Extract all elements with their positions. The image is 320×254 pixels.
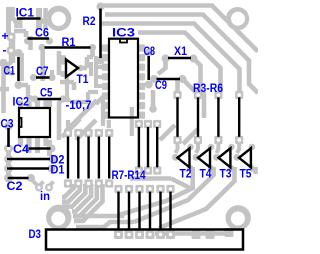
svg-text:C7: C7 (36, 64, 49, 78)
wire T1 surround (60, 49, 93, 68)
wire lead 3 (138, 192, 140, 229)
resistor R8 (77, 137, 79, 179)
pad C9 left (150, 75, 158, 83)
wire mid mesh bits (62, 77, 109, 128)
wire X1 left stub (158, 59, 166, 75)
pads R12R14 top (135, 120, 162, 128)
op-amp IC2 (19, 108, 50, 137)
wire T3 pad staircase (159, 167, 235, 228)
resistor R2 (99, 9, 102, 59)
pads layer (0, 3, 255, 240)
wire right of C1 (20, 53, 24, 81)
capacitor C9 (157, 78, 181, 81)
svg-text:C2: C2 (7, 179, 23, 193)
display D3 (46, 230, 243, 250)
wire lead 1 (117, 192, 119, 229)
svg-text:+: + (2, 29, 9, 43)
wire twin blobs top (36, 8, 42, 29)
wire mid mesh snake (70, 62, 132, 136)
svg-text:C9: C9 (155, 78, 167, 92)
wire left edge horizontal (0, 87, 9, 92)
pads T2-T5 right corners (187, 144, 255, 172)
pads T2-T5 left (172, 154, 240, 161)
wire left of C1 hook (8, 61, 14, 75)
resistor R14 (156, 127, 158, 167)
pad C9 right (179, 75, 187, 83)
wire lead 2 (128, 192, 130, 229)
svg-text:T5: T5 (240, 167, 252, 181)
wire mid mesh diagonals (62, 94, 106, 140)
pad C4 left (24, 145, 32, 153)
svg-text:T4: T4 (200, 167, 212, 181)
mounting hole bottom-right (226, 205, 251, 230)
pad R2 bottom (97, 57, 105, 65)
wire C5 to IC2 stub (50, 70, 52, 107)
crystal X1 (168, 57, 191, 60)
wire C2 to in diag (31, 179, 38, 186)
resistor R9 (87, 137, 89, 179)
pad IC1 left (13, 18, 20, 25)
pads IC3 left column (102, 44, 109, 118)
wire top bar 2 (105, 15, 258, 94)
wire lead 5 (159, 192, 161, 229)
wire top-left vertical (6, 7, 11, 34)
pad holes (7, 35, 241, 236)
wire IC2 under pads (29, 146, 38, 153)
wire bottom fan corners (62, 184, 74, 197)
pad T1 base1 (60, 58, 66, 64)
wire right of IC3 vertical (151, 90, 156, 110)
pad C4 right (48, 145, 56, 153)
pad R1 right (89, 44, 96, 51)
pad mid right (149, 105, 157, 113)
resistor R13 (147, 127, 149, 167)
wire IC1 pad stubs (16, 19, 20, 28)
pad C3 bottom / C4 col (4, 144, 13, 153)
wire IC2 bottom pad stubs (21, 138, 47, 147)
resistor-line IC1 (17, 17, 41, 20)
capacitor C5 (38, 98, 62, 101)
diode D2 (7, 158, 50, 160)
wire right mid vertical (202, 92, 207, 118)
pad X1 left (162, 55, 170, 63)
wire R3R6 line1 top vertical (175, 78, 180, 92)
capacitor C2 (8, 177, 29, 180)
svg-text:D1: D1 (51, 163, 65, 177)
wire right blob above D2 (47, 140, 52, 156)
wire D3 inner bar (155, 231, 230, 236)
pads IC3 right column (138, 44, 145, 118)
wire T5 pad staircase (253, 167, 258, 174)
pads R7R14 left group top (64, 129, 113, 137)
resistor R11 (108, 137, 110, 179)
resistor R12 (138, 127, 140, 167)
svg-text:IC1: IC1 (16, 6, 35, 20)
pad C1 top (15, 49, 23, 57)
IC IC3 (109, 39, 138, 118)
wire below T1 (60, 82, 74, 90)
svg-text:T1: T1 (77, 72, 89, 86)
transistor T3 (219, 148, 231, 167)
svg-text:-: - (3, 43, 7, 57)
wire R3R6 pads to T pads (176, 144, 240, 153)
resistor R1 (45, 46, 91, 49)
pads R3R6 tops (173, 91, 243, 99)
pad T1 base2 (60, 71, 66, 77)
wire mid-left vertical A (40, 49, 45, 81)
wire T1 right mesh vertical (96, 56, 103, 88)
svg-text:T2: T2 (180, 167, 192, 181)
wire T4 pad staircase (134, 167, 214, 222)
pad C7 right (48, 74, 55, 81)
wire top-left hook (9, 7, 13, 21)
svg-text:C1: C1 (4, 64, 16, 78)
wire left pads column lower (6, 145, 11, 182)
svg-text:R1: R1 (62, 35, 76, 49)
pads R3R6 bottoms (173, 136, 243, 144)
wire C1 bottom to C5 (19, 85, 34, 99)
pad C7 left (30, 74, 37, 81)
IC3 notch (120, 39, 127, 43)
pad minus terminal (6, 46, 15, 55)
pads D3 inner (114, 228, 234, 239)
wire C9 right diag (183, 79, 197, 93)
svg-text:C6: C6 (35, 26, 49, 40)
wire plus-minus column (9, 33, 16, 63)
mounting hole top-left (46, 6, 71, 31)
transistor T2 (178, 148, 190, 167)
svg-text:IC3: IC3 (112, 26, 135, 40)
silkscreen black layer (7, 9, 251, 250)
pad in left (35, 184, 43, 192)
pads R7R14 left group bottom (64, 179, 113, 187)
svg-text:X1: X1 (174, 44, 187, 58)
wire left edge vertical (1, 63, 6, 113)
wire lead 6 (169, 192, 171, 229)
svg-text:IC2: IC2 (13, 95, 30, 109)
pads R12R14 bottom (135, 166, 162, 174)
mounting hole bottom-left (46, 205, 71, 230)
svg-text:D3: D3 (29, 227, 42, 241)
transistor T1 (66, 60, 78, 78)
pad left edge (0, 59, 8, 67)
svg-text:R3-R6: R3-R6 (193, 81, 223, 95)
svg-text:C3: C3 (1, 117, 14, 131)
capacitor C7 (36, 76, 50, 79)
pad T1 apex (77, 65, 83, 71)
wire T2 pad staircase (73, 167, 193, 216)
pad C5 left (31, 95, 38, 102)
pad in right (45, 184, 53, 192)
wire IC2 top pad stubs (21, 101, 47, 108)
pad C5 right (59, 95, 66, 102)
wire right mid diagonals (160, 125, 198, 144)
resistor R6 (238, 97, 240, 137)
pad C8 top (145, 49, 153, 57)
wire top bar 4 (138, 33, 221, 93)
pad C1 bottom (15, 81, 23, 89)
pad C2 right (27, 174, 35, 182)
pad D1 right (48, 165, 56, 173)
pad IC1 right (38, 18, 45, 25)
resistor R5 (217, 97, 219, 137)
pad C6 left (24, 37, 31, 44)
wire R12R14 bottom bar (130, 176, 171, 181)
wire under C6 (14, 31, 31, 50)
wire staircase from R14 bar (171, 179, 192, 190)
pad C2 left (4, 174, 13, 183)
resistor R3 (176, 97, 178, 137)
capacitor C1 (17, 57, 20, 81)
svg-text:C8: C8 (144, 44, 156, 58)
svg-text:in: in (40, 189, 50, 203)
pad plus terminal (6, 32, 15, 41)
capacitor C4 (29, 147, 51, 150)
wire mid-left vertical B (57, 51, 62, 75)
pad D1 left (4, 164, 13, 173)
diode D1 (7, 167, 49, 169)
wire lead 4 (149, 192, 151, 229)
resistor R7 (67, 137, 69, 179)
wire top bar 3 (100, 24, 240, 93)
svg-text:T3: T3 (220, 167, 232, 181)
pad D2 left (4, 155, 13, 164)
pad R1 left (38, 44, 45, 51)
svg-text:-10,7: -10,7 (66, 98, 92, 112)
transistor T4 (198, 148, 210, 167)
pad X1 right (190, 55, 198, 63)
pad D2 right (49, 155, 57, 163)
wire X1 right diag (194, 59, 201, 93)
capacitor C8 (147, 56, 150, 80)
resistor R4 (197, 97, 199, 137)
capacitor C3 (7, 128, 10, 147)
pad R2 top (97, 3, 105, 11)
copper trace layer (0, 6, 258, 234)
wire top bar 1 (101, 6, 259, 52)
svg-text:C5: C5 (40, 86, 53, 100)
resistor R10 (98, 137, 100, 179)
IC2 notch (19, 118, 22, 127)
pads bottom group top (114, 185, 174, 193)
svg-text:R2: R2 (83, 14, 96, 28)
svg-text:C4: C4 (13, 142, 29, 156)
pad C6 right (46, 37, 53, 44)
wire in pads stubs (39, 182, 54, 187)
pad C3 top (5, 122, 13, 130)
capacitor C6 (28, 37, 50, 40)
wire IC2 right vertical (59, 99, 63, 140)
mounting hole top-right (226, 7, 249, 30)
pad C8 bottom (145, 81, 153, 89)
svg-text:R7-R14: R7-R14 (112, 168, 146, 182)
transistor T5 (239, 148, 251, 167)
